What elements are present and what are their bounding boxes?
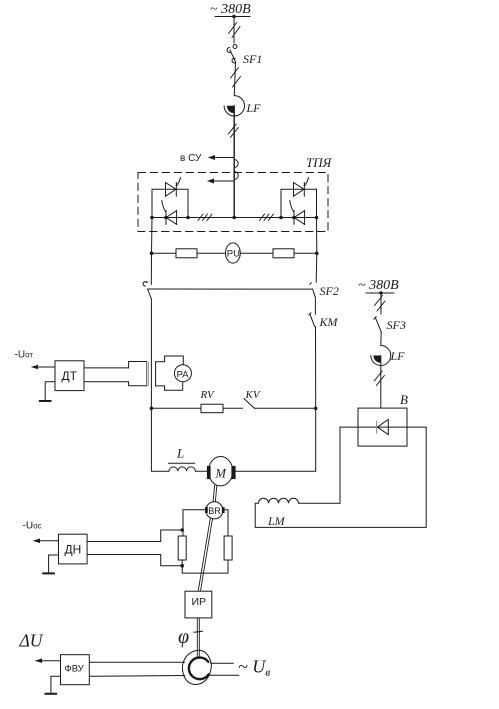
- thyristor VS1 (upper left, anode left): [166, 183, 177, 197]
- wire: [233, 106, 235, 218]
- output arrow -Uot: [32, 366, 55, 368]
- wire: [233, 17, 235, 44]
- ammeter PA: [174, 365, 191, 382]
- wire left arm left side: [151, 189, 153, 217]
- hatch marks on dc bus (left): [198, 214, 203, 221]
- svg-text:PA: PA: [177, 370, 190, 381]
- wire up to RV row right: [315, 408, 317, 471]
- svg-text:М: М: [215, 467, 227, 481]
- wire right arm right side: [316, 189, 318, 217]
- rotary phase shifter inner rotor: [189, 658, 209, 680]
- bracket DN: [161, 530, 183, 566]
- rectifier V box: [358, 408, 407, 446]
- left thyristor bridge arm: top wire: [152, 188, 188, 190]
- svg-text:PU: PU: [227, 249, 240, 260]
- rails DT to shunt: [84, 367, 129, 369]
- svg-text:В: В: [400, 392, 408, 407]
- svg-text:SF3: SF3: [387, 318, 406, 332]
- wire: [380, 332, 382, 345]
- shaft IR to phase shifter: [197, 618, 199, 659]
- winding loops on trunk: [234, 160, 238, 168]
- svg-text:~ Uв: ~ Uв: [238, 657, 270, 680]
- ground (DN): [49, 555, 59, 573]
- rails FVU to phase shifter: [89, 661, 184, 663]
- ground (FVU): [51, 676, 61, 693]
- circuit breaker SF3: [376, 318, 382, 332]
- tachogenerator BR: [206, 502, 223, 519]
- hatch marks below LF right: [374, 371, 382, 381]
- motor M armature: [209, 457, 233, 486]
- field winding LM: [299, 502, 341, 504]
- svg-text:KM: KM: [319, 315, 339, 329]
- supply bus (right): [366, 292, 394, 294]
- wire right arm left side: [280, 189, 282, 217]
- svg-text:ФВУ: ФВУ: [65, 664, 85, 675]
- thyristor VS2 (lower left, anode right): [166, 211, 176, 225]
- diode (inside V): [377, 420, 388, 435]
- ground (DT): [45, 382, 55, 401]
- junction dot on right bus: [379, 291, 383, 295]
- node ~Uv label: [238, 657, 270, 680]
- wire left down to shunt: [150, 299, 152, 362]
- svg-text:RV: RV: [200, 389, 216, 401]
- phase control unit FVU box: [61, 655, 90, 685]
- shunt right bracket to ammeter: [156, 356, 165, 390]
- svg-text:ДТ: ДТ: [62, 369, 78, 383]
- junction dots on dc bus: [150, 216, 154, 220]
- arrow to control system (upper): [209, 157, 234, 159]
- rotary phase shifter outer stator: [182, 650, 211, 684]
- wire left down to SF2: [150, 253, 152, 284]
- svg-text:ΔU: ΔU: [19, 631, 44, 651]
- svg-text:-Uос: -Uос: [23, 521, 42, 532]
- svg-text:SF2: SF2: [320, 284, 339, 298]
- svg-text:φ: φ: [178, 626, 189, 648]
- svg-text:LM: LM: [267, 514, 286, 528]
- wire L to motor: [195, 470, 207, 472]
- svg-text:BR: BR: [208, 506, 221, 516]
- reactor LF (right): [371, 346, 391, 366]
- shunt left bracket: [129, 362, 147, 386]
- rails DN to potentiometer: [87, 541, 161, 543]
- wire V right down: [425, 427, 427, 527]
- wire: [314, 298, 316, 315]
- svg-text:SF1: SF1: [243, 52, 262, 66]
- wire KM down to RV row: [315, 327, 317, 409]
- svg-text:LF: LF: [390, 349, 406, 363]
- supply bus (top): [215, 16, 250, 18]
- circuit breaker SF1: [233, 45, 237, 49]
- voltmeter PU: [226, 243, 241, 263]
- svg-text:LF: LF: [246, 101, 262, 115]
- resistor RV: [201, 404, 223, 413]
- wire BR left: [183, 510, 206, 536]
- thyristor VS4 (lower right, anode right): [294, 211, 304, 225]
- thyristor converter TPYa dashed box: [138, 173, 328, 232]
- junction dot on top bus: [232, 15, 236, 19]
- svg-text:~ 380В: ~ 380В: [358, 278, 399, 293]
- arrow to control system (lower): [208, 180, 234, 182]
- svg-text:-Uот: -Uот: [15, 350, 34, 361]
- junction dot upper tap: [180, 528, 184, 532]
- contactor contact KM: [310, 314, 315, 327]
- wire shunt down to RV row: [150, 386, 152, 408]
- wire converter left output: [151, 218, 154, 254]
- wire LM left down and bottom: [255, 503, 426, 527]
- wire left arm right side: [187, 189, 189, 217]
- wire converter right output: [316, 218, 318, 254]
- shunt RS body: [147, 362, 149, 386]
- wire below left resistor: [182, 560, 228, 573]
- hatch marks (3-phase) top: [229, 23, 237, 34]
- wire motor right: [236, 470, 316, 472]
- wire KV to right: [255, 407, 316, 409]
- svg-text:в СУ: в СУ: [180, 153, 202, 164]
- output arrow -Uoc: [34, 540, 59, 542]
- shaft motor to tachogenerator: [213, 485, 217, 502]
- resistor (left of PU): [176, 249, 197, 258]
- output arrow dU: [36, 660, 61, 662]
- relay contact KV: [244, 399, 255, 409]
- potentiometer left resistor: [178, 536, 186, 560]
- svg-text:L: L: [176, 446, 184, 461]
- rails phase shifter to supply: [211, 662, 234, 664]
- shaft BR to IR: [198, 518, 212, 591]
- node phi label: [178, 626, 189, 648]
- converter dc bus: [152, 217, 317, 219]
- svg-text:ТПЯ: ТПЯ: [306, 155, 333, 170]
- voltage sensor DN box: [59, 534, 88, 564]
- wire through rectifier: [340, 426, 426, 428]
- wire RV to KV: [223, 407, 243, 409]
- potentiometer right resistor: [224, 536, 232, 560]
- node ~380V supply label (top): [210, 2, 251, 17]
- svg-text:ДН: ДН: [65, 543, 82, 557]
- current sensor DT box: [55, 361, 84, 391]
- wire right down to SF2: [315, 253, 318, 282]
- wire: [380, 356, 382, 409]
- svg-text:KV: KV: [245, 389, 261, 401]
- node ~380V supply label (right): [358, 278, 399, 293]
- wire V left down: [339, 427, 341, 503]
- svg-text:~ 380В: ~ 380В: [210, 2, 251, 17]
- discharge branch: wire to RV: [151, 407, 201, 409]
- junction dot lower tap: [180, 564, 184, 568]
- wire: [380, 293, 382, 314]
- thyristor VS3 (upper right, anode left): [294, 183, 305, 197]
- reactor LF: [224, 96, 244, 116]
- resistor (right of PU): [273, 249, 294, 258]
- wire left down to L: [151, 408, 169, 471]
- hatch marks right branch top: [375, 296, 383, 306]
- disconnect switch SF2: [143, 282, 146, 286]
- speed setter IR box: [185, 591, 212, 618]
- wire BR right: [223, 510, 228, 536]
- svg-text:ИР: ИР: [192, 596, 207, 608]
- wire: [234, 63, 235, 96]
- hatch marks on dc bus (right): [260, 214, 265, 221]
- right thyristor bridge arm: top wire: [281, 188, 317, 190]
- hatch marks below SF1: [231, 68, 239, 79]
- smoothing reactor L: [169, 467, 195, 471]
- hatch marks below LF: [228, 124, 236, 134]
- measuring row line: [152, 252, 317, 254]
